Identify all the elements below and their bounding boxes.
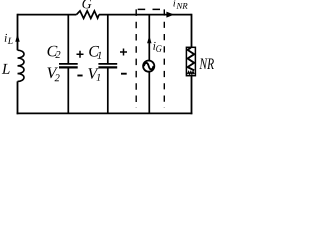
dashed line left: [135, 9, 137, 108]
minus C1: [121, 73, 127, 75]
source U iG circle: [143, 61, 154, 72]
plus C2: [77, 51, 84, 58]
label V2: [47, 68, 59, 82]
label iL: [5, 34, 13, 44]
label iNR: [173, 0, 187, 9]
arrow iG: [147, 36, 151, 44]
capacitor C2: [59, 63, 78, 65]
resistor G: [77, 11, 100, 19]
minus C2: [77, 75, 82, 77]
capacitor C1: [98, 63, 117, 65]
wire source branch: [148, 15, 150, 114]
wire left: [17, 14, 19, 115]
plus C1: [120, 49, 127, 56]
label C2: [48, 46, 61, 58]
label V1: [88, 68, 100, 81]
label C1: [89, 46, 101, 59]
wire right: [191, 14, 193, 115]
dashed line right: [163, 9, 165, 108]
arrow iL: [15, 34, 19, 42]
label NR: [199, 59, 214, 70]
inductor L: [18, 50, 25, 81]
wire bottom: [17, 112, 193, 114]
resistor NR zigzag: [188, 48, 195, 71]
label iG: [153, 42, 161, 52]
wire C1 branch: [107, 15, 109, 114]
resistor NR box: [186, 47, 195, 75]
label L: [2, 64, 10, 74]
wire top: [18, 14, 192, 16]
dashed line top: [138, 8, 160, 10]
arrow iNR: [166, 12, 174, 18]
source sine: [144, 63, 154, 69]
wire C2 branch: [67, 15, 69, 114]
label G: [82, 0, 91, 8]
